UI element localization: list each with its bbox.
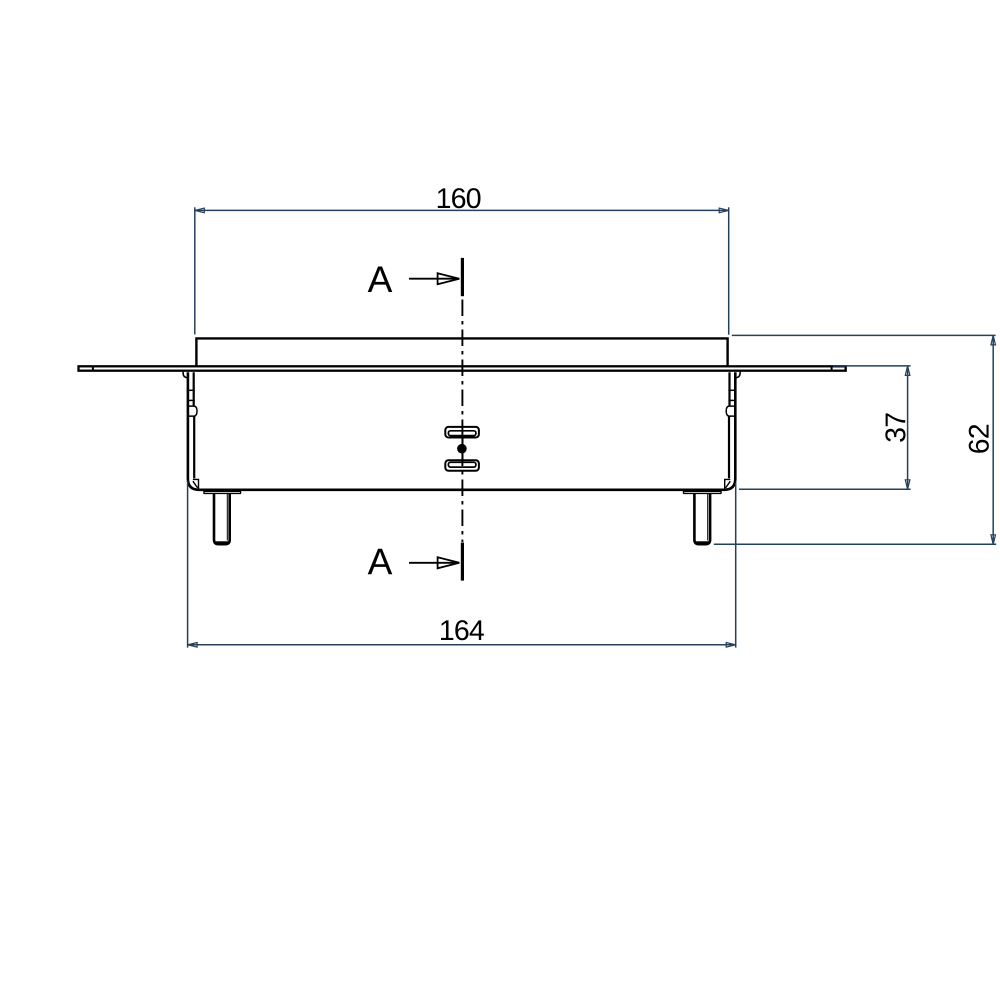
body outer wall and bottom <box>188 372 735 490</box>
left leg bottom cap <box>215 541 228 544</box>
left leg <box>214 494 230 544</box>
dim 62 line <box>992 335 994 544</box>
dim 37 arrow top <box>905 366 910 376</box>
dim 160 text <box>438 188 481 208</box>
section arrow top head <box>438 273 460 284</box>
left wall tick 1 <box>189 389 195 391</box>
section label A bottom <box>368 549 393 575</box>
right leg inner line <box>707 494 709 541</box>
left wall bend stub <box>183 372 188 378</box>
lower slot outer <box>445 460 479 471</box>
dim 160 arrow right <box>719 208 729 213</box>
dim 160 extension right <box>728 207 730 334</box>
left wall inner line lower <box>193 416 195 478</box>
section arrow top shaft <box>409 278 459 280</box>
right corner bend detail <box>725 479 731 489</box>
right wall inner line upper <box>728 372 730 405</box>
flange right edge tick <box>831 366 833 370</box>
right wall tick 2 <box>728 399 734 401</box>
dim 37 line <box>907 366 909 489</box>
upper slot outer <box>445 427 479 438</box>
left wall notch <box>189 406 197 416</box>
dim 37 text <box>885 413 905 441</box>
dim 62 arrow top <box>991 335 996 345</box>
right leg flange <box>683 491 721 493</box>
section arrow bottom head <box>438 557 460 568</box>
left wall tick 2 <box>189 399 195 401</box>
slot connector line <box>462 438 464 461</box>
section centerline dash-dot <box>461 300 463 543</box>
top cover outline <box>196 338 727 365</box>
dim 37 extension bottom <box>739 488 911 490</box>
dim 62 extension bottom <box>714 543 996 545</box>
dim 37 extension top <box>833 365 911 367</box>
section arrow bottom shaft <box>409 562 459 564</box>
lower slot inner <box>448 462 476 467</box>
dim 164 text <box>441 620 484 640</box>
dim 62 text <box>969 425 989 453</box>
section bar top <box>461 258 464 296</box>
right wall tick 1 <box>728 389 734 391</box>
left wall inner line upper <box>193 372 195 405</box>
left corner bend detail <box>193 479 199 489</box>
section bar bottom <box>461 543 464 581</box>
dim 62 arrow bottom <box>991 535 996 545</box>
left leg flange <box>204 491 241 493</box>
dim 164 line <box>188 644 736 646</box>
dim 62 extension top <box>732 334 996 336</box>
dim 160 extension left <box>194 207 196 334</box>
right leg <box>694 494 710 544</box>
dim 37 arrow bottom <box>905 480 910 490</box>
right leg bottom cap <box>696 541 709 544</box>
section label A top <box>368 267 393 293</box>
mounting flange plate <box>79 366 846 370</box>
dim 164 arrow right <box>726 643 736 648</box>
center dot <box>457 444 467 454</box>
dim 164 extension left <box>187 481 189 648</box>
dim 164 extension right <box>735 483 737 648</box>
dim 160 line <box>195 209 729 211</box>
right wall bend stub <box>735 372 740 378</box>
right wall inner line lower <box>728 416 730 478</box>
right wall notch <box>726 406 734 416</box>
left leg inner line <box>226 494 228 541</box>
flange left edge tick <box>92 366 94 370</box>
dim 164 arrow left <box>188 643 198 648</box>
dim 160 arrow left <box>195 208 205 213</box>
upper slot inner <box>448 431 476 436</box>
